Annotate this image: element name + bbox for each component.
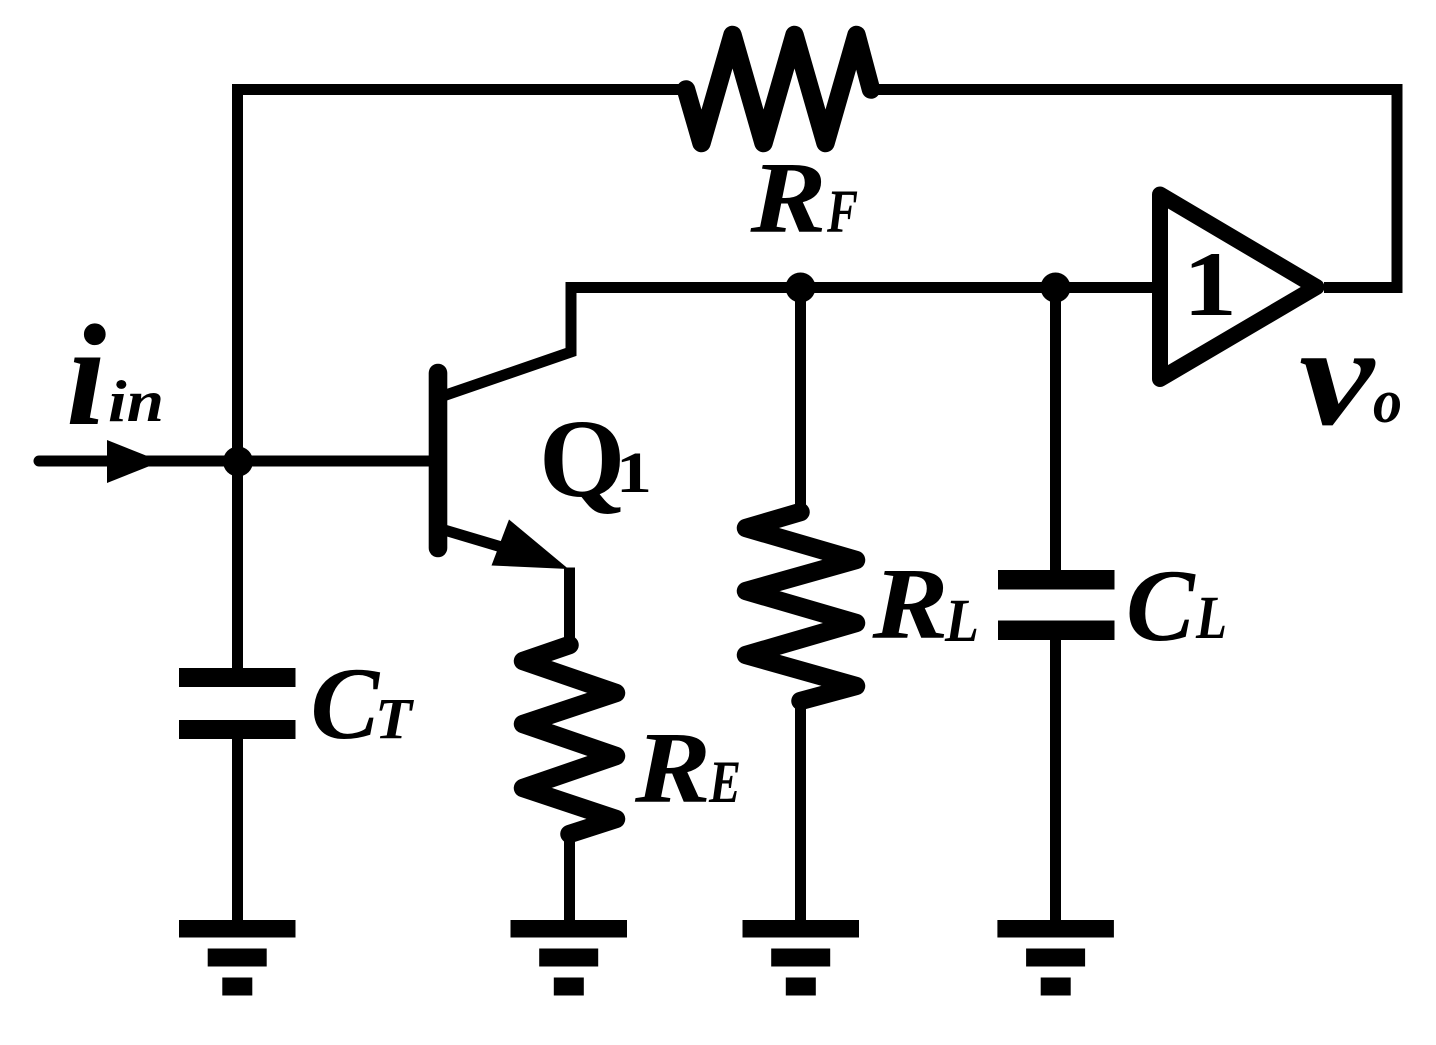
svg-text:in: in: [108, 368, 164, 434]
svg-text:L: L: [1195, 585, 1227, 652]
svg-text:v: v: [1299, 297, 1376, 455]
svg-text:T: T: [375, 686, 414, 751]
svg-text:C: C: [1126, 549, 1196, 663]
svg-text:1: 1: [616, 440, 652, 505]
svg-text:R: R: [634, 712, 711, 825]
svg-text:E: E: [708, 749, 741, 815]
svg-text:F: F: [826, 179, 858, 246]
svg-text:o: o: [1373, 368, 1402, 436]
svg-text:Q: Q: [539, 398, 625, 521]
svg-text:C: C: [311, 647, 381, 761]
svg-text:1: 1: [1183, 233, 1237, 335]
svg-text:R: R: [749, 142, 826, 255]
svg-text:R: R: [871, 548, 948, 661]
svg-text:L: L: [944, 587, 979, 655]
svg-text:i: i: [66, 296, 106, 456]
